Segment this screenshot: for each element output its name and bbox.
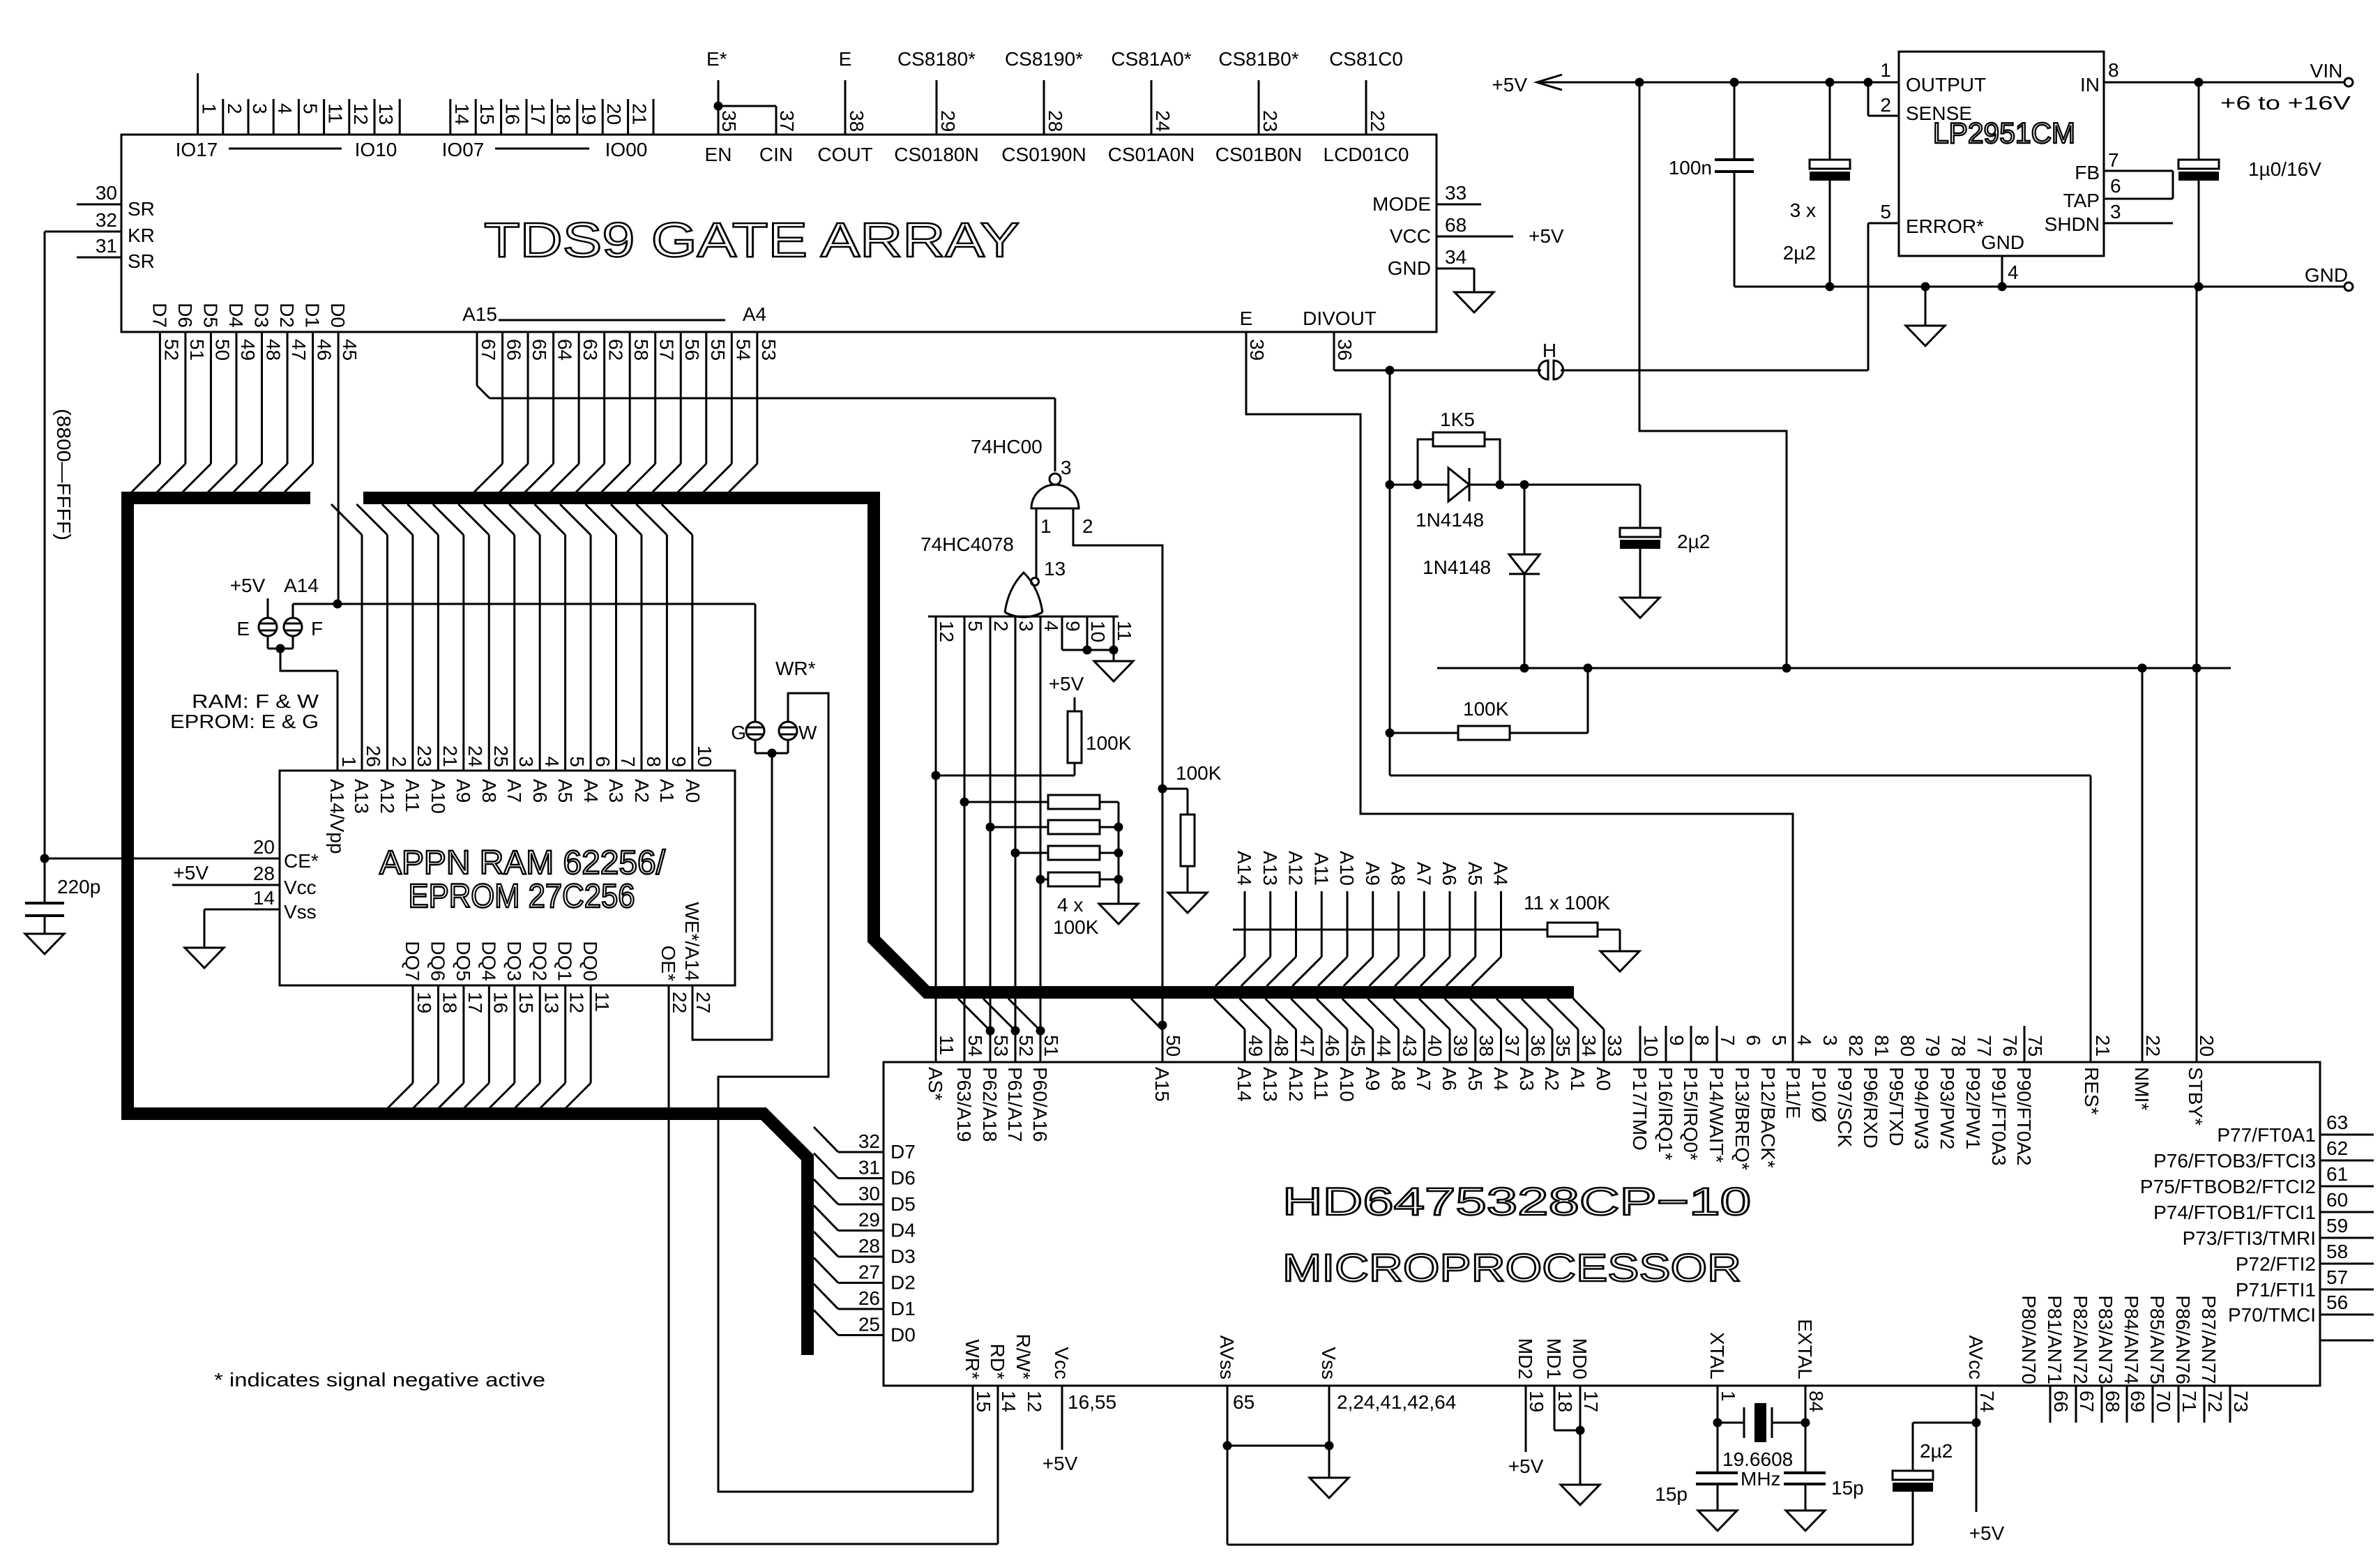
svg-text:AS*: AS*: [925, 1067, 946, 1100]
svg-text:15: 15: [973, 1391, 994, 1412]
svg-text:IO17: IO17: [176, 139, 218, 160]
svg-text:5: 5: [1768, 1035, 1790, 1046]
svg-text:A15: A15: [462, 303, 497, 325]
svg-text:38: 38: [846, 110, 867, 132]
svg-text:11: 11: [325, 103, 347, 123]
svg-text:84: 84: [1805, 1391, 1827, 1412]
svg-text:P60/A16: P60/A16: [1029, 1067, 1051, 1142]
svg-text:DQ2: DQ2: [529, 941, 550, 981]
svg-text:31: 31: [96, 235, 117, 257]
svg-text:A13: A13: [351, 779, 372, 814]
svg-text:31: 31: [858, 1157, 880, 1179]
svg-text:52: 52: [1015, 1035, 1037, 1057]
svg-text:4: 4: [1040, 621, 1062, 632]
svg-text:77: 77: [1973, 1035, 1995, 1057]
svg-text:3: 3: [515, 756, 537, 767]
svg-text:RES*: RES*: [2081, 1067, 2102, 1115]
svg-text:1µ0/16V: 1µ0/16V: [2248, 158, 2321, 180]
svg-text:17: 17: [527, 103, 549, 125]
svg-text:P97/SCK: P97/SCK: [1834, 1067, 1856, 1147]
svg-text:78: 78: [1948, 1035, 1969, 1057]
svg-text:(8800—FFFF): (8800—FFFF): [53, 409, 75, 540]
svg-text:30: 30: [858, 1183, 880, 1204]
svg-text:A4: A4: [1490, 862, 1512, 886]
svg-text:82: 82: [1845, 1035, 1867, 1057]
svg-text:+5V: +5V: [173, 862, 209, 884]
svg-text:4 x: 4 x: [1057, 894, 1083, 916]
svg-text:49: 49: [1245, 1035, 1266, 1057]
svg-text:6: 6: [2110, 175, 2121, 197]
svg-text:D7: D7: [890, 1141, 916, 1163]
svg-text:57: 57: [656, 339, 678, 361]
svg-text:1: 1: [1880, 59, 1891, 81]
svg-text:12: 12: [350, 103, 372, 125]
svg-text:Vcc: Vcc: [284, 877, 317, 898]
svg-text:50: 50: [211, 339, 233, 361]
svg-text:15: 15: [515, 992, 537, 1013]
svg-text:P17/TMO: P17/TMO: [1629, 1067, 1651, 1151]
svg-text:56: 56: [2326, 1292, 2348, 1313]
svg-text:14: 14: [451, 103, 473, 125]
svg-text:P16/IRQ1*: P16/IRQ1*: [1655, 1067, 1676, 1160]
svg-text:P12/BACK*: P12/BACK*: [1757, 1067, 1779, 1168]
svg-text:56: 56: [681, 339, 703, 361]
svg-text:69: 69: [2127, 1391, 2148, 1412]
svg-text:28: 28: [253, 863, 275, 884]
svg-text:+5V: +5V: [1049, 673, 1084, 695]
svg-text:2µ2: 2µ2: [1920, 1440, 1953, 1462]
svg-text:P83/AN73: P83/AN73: [2095, 1295, 2116, 1384]
svg-text:A7: A7: [1413, 862, 1434, 886]
svg-text:MHz: MHz: [1741, 1468, 1781, 1490]
svg-text:A13: A13: [1259, 851, 1281, 886]
svg-text:4: 4: [541, 756, 563, 767]
svg-text:DQ4: DQ4: [478, 941, 499, 981]
svg-text:RAM: F & W: RAM: F & W: [192, 690, 319, 712]
svg-text:CS01B0N: CS01B0N: [1215, 144, 1303, 165]
svg-text:A12: A12: [377, 779, 398, 814]
svg-text:37: 37: [1501, 1035, 1523, 1057]
svg-text:80: 80: [1897, 1035, 1918, 1057]
svg-text:39: 39: [1450, 1035, 1471, 1057]
svg-text:A11: A11: [402, 779, 423, 812]
svg-text:EN: EN: [705, 144, 732, 165]
svg-text:D5: D5: [199, 303, 221, 328]
svg-text:WR*: WR*: [962, 1339, 983, 1379]
svg-text:ERROR*: ERROR*: [1906, 215, 1984, 237]
svg-text:4: 4: [1794, 1035, 1815, 1046]
svg-text:A9: A9: [1362, 862, 1384, 886]
svg-text:P63/A19: P63/A19: [953, 1067, 975, 1142]
svg-text:63: 63: [2326, 1112, 2348, 1133]
svg-text:A2: A2: [631, 779, 653, 803]
svg-text:P70/TMCI: P70/TMCI: [2228, 1304, 2316, 1326]
svg-text:12: 12: [936, 621, 957, 642]
svg-text:MD0: MD0: [1569, 1338, 1591, 1379]
svg-text:P84/AN74: P84/AN74: [2121, 1295, 2142, 1384]
svg-text:APPN RAM 62256/: APPN RAM 62256/: [379, 845, 666, 881]
svg-text:32: 32: [858, 1130, 880, 1152]
svg-text:3: 3: [1819, 1035, 1841, 1046]
svg-text:74: 74: [1976, 1391, 1998, 1412]
svg-text:51: 51: [1040, 1035, 1062, 1057]
svg-text:CS01A0N: CS01A0N: [1108, 144, 1195, 165]
svg-text:44: 44: [1373, 1035, 1395, 1057]
svg-text:E: E: [839, 48, 852, 70]
svg-text:15p: 15p: [1831, 1477, 1864, 1499]
svg-text:D5: D5: [890, 1193, 916, 1215]
svg-text:11 x 100K: 11 x 100K: [1524, 892, 1610, 914]
svg-text:A15: A15: [1151, 1067, 1173, 1102]
svg-text:23: 23: [414, 745, 435, 767]
svg-text:P91/FT0A3: P91/FT0A3: [1988, 1067, 2010, 1166]
svg-text:62: 62: [605, 339, 627, 361]
svg-text:A13: A13: [1259, 1067, 1281, 1102]
svg-text:2µ2: 2µ2: [1783, 242, 1816, 264]
svg-text:34: 34: [1578, 1035, 1600, 1057]
svg-text:7: 7: [1717, 1035, 1738, 1046]
svg-text:NMI*: NMI*: [2131, 1067, 2153, 1110]
svg-text:18: 18: [439, 992, 460, 1013]
svg-text:8: 8: [643, 756, 665, 767]
svg-text:SENSE: SENSE: [1906, 103, 1972, 124]
svg-text:A14/Vpp: A14/Vpp: [326, 779, 348, 854]
svg-text:IO10: IO10: [355, 139, 397, 160]
svg-text:2: 2: [224, 103, 245, 114]
svg-text:6: 6: [1743, 1035, 1764, 1046]
svg-text:D3: D3: [251, 303, 273, 328]
svg-text:A7: A7: [1413, 1067, 1434, 1091]
svg-text:D3: D3: [890, 1246, 916, 1267]
svg-text:P13/BREQ*: P13/BREQ*: [1731, 1067, 1753, 1170]
svg-text:27: 27: [692, 992, 714, 1013]
svg-text:43: 43: [1399, 1035, 1420, 1057]
svg-text:1N4148: 1N4148: [1423, 557, 1491, 578]
svg-text:DQ1: DQ1: [554, 941, 576, 981]
svg-text:A6: A6: [1439, 1067, 1460, 1091]
svg-text:GND: GND: [1388, 257, 1431, 279]
svg-text:Vss: Vss: [1318, 1347, 1340, 1379]
svg-text:G: G: [731, 722, 746, 743]
svg-text:AVcc: AVcc: [1965, 1335, 1987, 1379]
svg-text:P15/IRQ0*: P15/IRQ0*: [1680, 1067, 1701, 1160]
svg-text:A5: A5: [1464, 862, 1486, 886]
svg-text:12: 12: [566, 992, 588, 1013]
svg-text:4: 4: [2008, 262, 2019, 283]
svg-text:100n: 100n: [1669, 157, 1712, 179]
svg-text:CIN: CIN: [759, 144, 793, 165]
svg-text:2: 2: [1880, 94, 1891, 116]
svg-text:COUT: COUT: [817, 144, 872, 165]
svg-text:33: 33: [1604, 1035, 1625, 1057]
svg-text:52: 52: [160, 339, 182, 361]
svg-text:2: 2: [388, 756, 410, 767]
svg-text:SR: SR: [128, 250, 155, 272]
svg-text:100K: 100K: [1053, 916, 1099, 938]
svg-text:14: 14: [253, 887, 275, 909]
svg-text:19: 19: [414, 992, 435, 1013]
svg-text:A12: A12: [1285, 1067, 1307, 1102]
svg-text:58: 58: [630, 339, 652, 361]
svg-text:KR: KR: [128, 225, 155, 246]
svg-text:45: 45: [1347, 1035, 1369, 1057]
svg-text:19: 19: [1526, 1391, 1547, 1412]
svg-text:D7: D7: [149, 303, 170, 328]
svg-text:A10: A10: [1336, 1067, 1358, 1102]
svg-text:26: 26: [858, 1287, 880, 1309]
svg-text:13: 13: [1044, 558, 1066, 580]
svg-text:3: 3: [1061, 457, 1072, 478]
svg-text:P75/FTBOB2/FTCI2: P75/FTBOB2/FTCI2: [2140, 1176, 2316, 1197]
svg-text:9: 9: [1062, 621, 1084, 632]
svg-text:46: 46: [1321, 1035, 1343, 1057]
svg-text:MICROPROCESSOR: MICROPROCESSOR: [1282, 1246, 1741, 1289]
svg-text:HD6475328CP−10: HD6475328CP−10: [1282, 1179, 1751, 1223]
svg-text:22: 22: [1367, 110, 1388, 132]
svg-text:P73/FTI3/TMRI: P73/FTI3/TMRI: [2183, 1227, 2316, 1249]
svg-text:W: W: [798, 722, 817, 743]
svg-text:3: 3: [2110, 201, 2121, 222]
svg-text:1: 1: [1040, 515, 1052, 537]
svg-text:35: 35: [1552, 1035, 1574, 1057]
svg-text:MD1: MD1: [1543, 1338, 1565, 1379]
svg-text:10: 10: [1087, 621, 1109, 642]
svg-text:A14: A14: [284, 575, 319, 596]
svg-text:18: 18: [1554, 1391, 1576, 1412]
svg-text:29: 29: [937, 110, 959, 132]
svg-text:A7: A7: [503, 779, 525, 803]
svg-text:DIVOUT: DIVOUT: [1303, 308, 1377, 329]
svg-text:+6 to +16V: +6 to +16V: [2220, 92, 2351, 114]
svg-text:54: 54: [732, 339, 754, 361]
svg-text:1N4148: 1N4148: [1416, 509, 1484, 531]
svg-text:10: 10: [1640, 1035, 1662, 1057]
svg-text:2: 2: [1082, 515, 1093, 537]
svg-text:VIN: VIN: [2310, 60, 2343, 82]
svg-text:29: 29: [858, 1209, 880, 1231]
svg-text:81: 81: [1871, 1035, 1893, 1057]
svg-text:1K5: 1K5: [1440, 409, 1475, 430]
svg-text:16,55: 16,55: [1068, 1391, 1116, 1413]
svg-text:1: 1: [199, 103, 220, 114]
svg-text:A3: A3: [605, 779, 627, 803]
svg-text:A10: A10: [427, 779, 449, 814]
svg-text:74HC00: 74HC00: [971, 436, 1043, 457]
svg-text:GND: GND: [2305, 264, 2348, 286]
svg-text:P85/AN75: P85/AN75: [2146, 1295, 2168, 1384]
svg-text:25: 25: [490, 745, 512, 767]
svg-text:16: 16: [502, 103, 524, 125]
svg-text:15: 15: [476, 103, 498, 125]
svg-text:5: 5: [1880, 201, 1891, 222]
svg-text:6: 6: [592, 756, 614, 767]
svg-text:D4: D4: [890, 1220, 916, 1241]
svg-text:E: E: [1240, 308, 1253, 329]
svg-text:A11: A11: [1310, 1067, 1332, 1100]
svg-text:EPROM: E & G: EPROM: E & G: [170, 711, 319, 732]
svg-text:9: 9: [668, 756, 690, 767]
svg-text:P94/PW3: P94/PW3: [1911, 1067, 1932, 1149]
svg-text:A9: A9: [453, 779, 474, 803]
svg-text:24: 24: [464, 745, 486, 767]
svg-text:36: 36: [1334, 339, 1356, 361]
svg-text:A4: A4: [1490, 1067, 1512, 1091]
svg-text:A1: A1: [1567, 1067, 1589, 1091]
svg-text:57: 57: [2326, 1266, 2348, 1288]
svg-text:8: 8: [2108, 59, 2119, 81]
svg-text:Vcc: Vcc: [1051, 1347, 1072, 1379]
svg-text:P71/FTI1: P71/FTI1: [2236, 1279, 2316, 1301]
svg-text:P87/AN77: P87/AN77: [2198, 1295, 2220, 1384]
svg-text:A8: A8: [478, 779, 500, 803]
svg-text:P82/AN72: P82/AN72: [2070, 1295, 2091, 1384]
svg-text:63: 63: [579, 339, 601, 361]
svg-text:D1: D1: [890, 1298, 916, 1319]
svg-text:13: 13: [540, 992, 562, 1013]
svg-text:47: 47: [1296, 1035, 1318, 1057]
svg-text:P86/AN76: P86/AN76: [2172, 1295, 2194, 1384]
svg-text:D0: D0: [890, 1324, 916, 1346]
svg-text:65: 65: [529, 339, 550, 361]
svg-text:+5V: +5V: [1043, 1453, 1078, 1474]
svg-text:67: 67: [2076, 1391, 2098, 1412]
svg-text:2: 2: [990, 621, 1012, 632]
svg-text:IO07: IO07: [442, 139, 485, 160]
svg-text:37: 37: [776, 110, 798, 132]
svg-text:13: 13: [375, 103, 397, 125]
svg-text:OE*: OE*: [658, 946, 679, 981]
svg-text:CE*: CE*: [284, 850, 319, 872]
svg-text:D6: D6: [174, 303, 196, 328]
svg-text:A0: A0: [1593, 1067, 1614, 1091]
svg-text:3 x: 3 x: [1790, 199, 1816, 221]
svg-text:15p: 15p: [1655, 1483, 1688, 1505]
svg-text:D1: D1: [302, 303, 324, 328]
svg-text:32: 32: [96, 209, 117, 231]
svg-text:D4: D4: [225, 303, 247, 328]
svg-text:50: 50: [1162, 1035, 1184, 1057]
svg-text:49: 49: [237, 339, 259, 361]
svg-text:P10/Ø: P10/Ø: [1808, 1067, 1830, 1122]
svg-text:11: 11: [1114, 621, 1135, 641]
svg-text:33: 33: [1445, 182, 1466, 204]
svg-text:8: 8: [1691, 1035, 1713, 1046]
svg-text:66: 66: [503, 339, 525, 361]
svg-text:CS81A0*: CS81A0*: [1111, 48, 1191, 70]
svg-text:P96/RXD: P96/RXD: [1860, 1067, 1881, 1149]
svg-text:A5: A5: [1464, 1067, 1486, 1091]
svg-text:66: 66: [2050, 1391, 2072, 1412]
svg-text:SHDN: SHDN: [2045, 213, 2100, 235]
svg-text:GND: GND: [1981, 232, 2024, 253]
svg-text:34: 34: [1445, 246, 1466, 268]
svg-text:39: 39: [1246, 339, 1268, 361]
svg-text:51: 51: [186, 339, 208, 361]
svg-text:D2: D2: [890, 1272, 916, 1294]
svg-text:P80/AN70: P80/AN70: [2018, 1295, 2040, 1384]
svg-text:* indicates signal negative: * indicates signal negative active: [214, 1369, 545, 1391]
svg-text:A6: A6: [529, 779, 551, 803]
svg-text:D2: D2: [276, 303, 298, 328]
svg-text:53: 53: [758, 339, 780, 361]
svg-text:E*: E*: [706, 48, 727, 70]
svg-text:54: 54: [964, 1035, 986, 1057]
svg-text:A8: A8: [1388, 862, 1409, 886]
svg-text:P74/FTOB1/FTCI1: P74/FTOB1/FTCI1: [2153, 1202, 2316, 1223]
svg-text:62: 62: [2326, 1137, 2348, 1159]
svg-text:A10: A10: [1336, 851, 1358, 886]
svg-text:7: 7: [617, 756, 639, 767]
svg-text:+5V: +5V: [1492, 74, 1527, 96]
svg-text:A12: A12: [1285, 851, 1307, 886]
svg-text:19.6608: 19.6608: [1722, 1448, 1793, 1470]
svg-text:28: 28: [1045, 110, 1066, 132]
svg-text:67: 67: [478, 339, 499, 361]
svg-text:+5V: +5V: [230, 575, 266, 596]
svg-text:5: 5: [964, 621, 986, 632]
svg-text:CS0190N: CS0190N: [1001, 144, 1086, 165]
svg-text:7: 7: [2108, 149, 2119, 171]
svg-text:IN: IN: [2080, 74, 2100, 96]
svg-text:+5V: +5V: [1529, 225, 1564, 247]
svg-text:CS81C0: CS81C0: [1329, 48, 1403, 70]
svg-text:100K: 100K: [1463, 698, 1509, 720]
svg-text:100K: 100K: [1086, 732, 1132, 754]
svg-text:A4: A4: [743, 303, 766, 325]
svg-text:70: 70: [2153, 1391, 2174, 1412]
svg-text:3: 3: [1015, 621, 1037, 632]
svg-text:A1: A1: [656, 779, 678, 803]
svg-text:11: 11: [591, 992, 613, 1012]
svg-text:68: 68: [2102, 1391, 2123, 1412]
svg-text:24: 24: [1152, 110, 1174, 132]
svg-text:TAP: TAP: [2063, 190, 2100, 211]
svg-text:A8: A8: [1388, 1067, 1409, 1091]
svg-text:P77/FT0A1: P77/FT0A1: [2217, 1124, 2316, 1146]
svg-text:P76/FTOB3/FTCI3: P76/FTOB3/FTCI3: [2153, 1150, 2316, 1172]
svg-text:DQ6: DQ6: [427, 941, 448, 981]
svg-text:DQ0: DQ0: [579, 941, 601, 981]
svg-text:OUTPUT: OUTPUT: [1906, 74, 1986, 96]
svg-text:21: 21: [2092, 1035, 2114, 1057]
svg-text:DQ7: DQ7: [402, 941, 423, 981]
svg-text:20: 20: [2196, 1035, 2218, 1057]
svg-text:A14: A14: [1234, 851, 1255, 886]
svg-text:XTAL: XTAL: [1706, 1332, 1728, 1379]
svg-text:20: 20: [603, 103, 625, 125]
svg-text:59: 59: [2326, 1215, 2348, 1236]
svg-text:11: 11: [936, 1035, 957, 1055]
svg-text:36: 36: [1527, 1035, 1549, 1057]
svg-text:P90/FT0A2: P90/FT0A2: [2013, 1067, 2035, 1166]
svg-text:P14/WAIT*: P14/WAIT*: [1706, 1067, 1727, 1163]
svg-text:A9: A9: [1362, 1067, 1384, 1091]
svg-text:WR*: WR*: [775, 658, 816, 679]
svg-text:WE*/A14: WE*/A14: [681, 902, 703, 981]
svg-text:68: 68: [1445, 214, 1466, 236]
svg-text:CS8190*: CS8190*: [1005, 48, 1083, 70]
svg-text:60: 60: [2326, 1189, 2348, 1211]
svg-text:35: 35: [718, 110, 740, 132]
svg-text:A0: A0: [682, 779, 704, 803]
svg-text:40: 40: [1424, 1035, 1446, 1057]
svg-text:100K: 100K: [1176, 762, 1222, 784]
svg-text:38: 38: [1476, 1035, 1497, 1057]
svg-text:10: 10: [694, 745, 715, 767]
svg-text:LCD01C0: LCD01C0: [1324, 144, 1409, 165]
svg-text:45: 45: [339, 339, 361, 361]
svg-text:A11: A11: [1310, 852, 1332, 886]
